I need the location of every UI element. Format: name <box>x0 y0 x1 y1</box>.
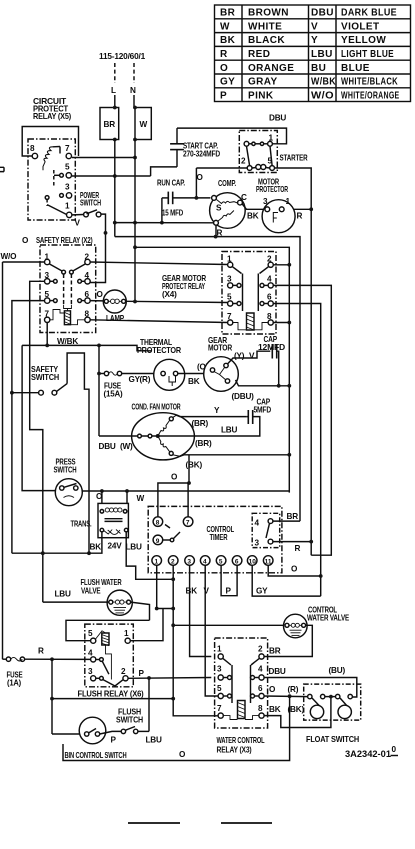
node (W) fan left <box>120 442 133 451</box>
svg-text:6: 6 <box>267 293 272 302</box>
starter pin 2 <box>241 157 252 171</box>
svg-text:BROWN: BROWN <box>248 8 289 19</box>
node DBU (X3 pin4) <box>269 667 286 676</box>
svg-text:P: P <box>226 587 232 596</box>
flush relay contacts <box>96 658 123 686</box>
wire timer aux pin4 to L bus <box>273 520 300 522</box>
starter box <box>239 131 277 173</box>
node LBU (flush switch) <box>146 736 163 745</box>
wire bottom bus down <box>63 696 290 760</box>
flush relay pin 4 <box>88 649 96 663</box>
svg-text:SWITCH: SWITCH <box>80 199 101 208</box>
svg-text:3: 3 <box>88 667 93 676</box>
timer aux pin 3 <box>255 539 273 548</box>
svg-text:2: 2 <box>258 645 263 654</box>
svg-text:W/O: W/O <box>1 252 18 261</box>
timer terminal 7 <box>183 517 193 527</box>
wire LBU to flush valve <box>43 601 109 603</box>
cap 12MFD label <box>258 335 285 352</box>
svg-text:8: 8 <box>258 704 263 713</box>
svg-text:SAFETY RELAY (X2): SAFETY RELAY (X2) <box>36 236 93 245</box>
node O (transformer) <box>96 492 103 501</box>
node (BR) lower <box>195 439 212 448</box>
svg-text:RUN CAP.: RUN CAP. <box>157 179 185 188</box>
drawing number 3A2342-01 <box>345 745 397 759</box>
safety switch <box>39 384 68 396</box>
svg-text:(BR): (BR) <box>195 439 212 448</box>
svg-text:BK: BK <box>220 35 236 46</box>
node Y (fan cap wire) <box>214 406 220 415</box>
junction bus B at safety switch <box>10 391 14 395</box>
run cap label <box>157 179 185 188</box>
svg-text:COMP.: COMP. <box>218 179 236 188</box>
wire transformer BK to bus B <box>12 532 102 553</box>
relay X2 pin 5 <box>45 290 58 303</box>
node (BK) fan <box>186 461 203 470</box>
svg-text:BIN CONTROL SWITCH: BIN CONTROL SWITCH <box>65 751 127 760</box>
starter pin 1 <box>268 134 274 147</box>
flush switch label <box>116 708 143 725</box>
relay X2 pin 1 <box>45 253 50 265</box>
node BK (timer 3) <box>186 587 198 596</box>
wire O branch down to compressor S <box>196 168 210 198</box>
junction fan drop at fuse line <box>97 372 101 376</box>
flush relay pin 3 <box>88 667 96 681</box>
node P (timer 5-6 link) <box>226 587 232 596</box>
press switch <box>55 479 82 506</box>
junction LBU line at timer pin1 <box>155 607 159 611</box>
svg-text:BLACK: BLACK <box>248 35 285 46</box>
bus C press switch feed <box>22 345 55 490</box>
starter pin 5 <box>268 157 275 171</box>
R bus vertical to timer aux <box>310 209 312 555</box>
wire timer 7 up to bracket <box>187 483 189 517</box>
svg-text:LBU: LBU <box>146 736 163 745</box>
wire X5 pin7 to N bus <box>72 157 135 159</box>
junction power switch wire <box>104 231 108 235</box>
node O and (R) (X3 pin6) <box>269 685 299 694</box>
bin control switch <box>79 717 106 744</box>
relay X4 pin 3 <box>227 275 233 289</box>
water control relay X3 box <box>215 638 268 728</box>
fuse 15A <box>99 371 122 375</box>
junction timer pin2 at bottom R line <box>171 697 175 701</box>
svg-text:3: 3 <box>217 665 222 674</box>
capacitor 5MFD <box>248 410 252 424</box>
safety relay X2 box <box>40 245 96 333</box>
wire timer2 bottom line <box>52 698 173 700</box>
wire timer 2 down to X3 pin7 <box>173 565 218 716</box>
cond fan motor <box>132 413 195 460</box>
relay X5 pin 8 <box>30 144 38 159</box>
junction press line at transformer W rise <box>125 489 129 493</box>
wire gear motor V to cap 12MFD <box>228 351 271 364</box>
svg-text:DARK BLUE: DARK BLUE <box>341 8 397 19</box>
svg-text:BR: BR <box>269 647 281 656</box>
timer terminal 6 <box>232 556 242 566</box>
svg-text:ORANGE: ORANGE <box>248 63 294 74</box>
starter top contacts <box>244 141 268 146</box>
svg-text:LBU: LBU <box>126 543 143 552</box>
starter label <box>280 154 308 163</box>
node BK (thermal to gear motor) <box>188 377 200 386</box>
relay X5 coil <box>43 147 60 171</box>
svg-text:5: 5 <box>219 559 223 566</box>
svg-text:4: 4 <box>88 649 93 658</box>
timer internal contact <box>163 525 180 542</box>
relay X2 coil <box>50 310 85 325</box>
motor protector pin labels <box>263 197 291 206</box>
wire start cap bottom to L/pin5 line <box>151 167 177 176</box>
junction timer7 riser at bracket <box>187 481 191 485</box>
svg-text:4: 4 <box>255 519 260 528</box>
relay X2 pin 3 <box>45 271 58 284</box>
svg-text:O: O <box>97 290 104 299</box>
wire fan left terminal to fuse drop <box>99 435 132 437</box>
node BK and (BK) (X3 pin8) <box>269 705 304 714</box>
motor protector label <box>256 178 288 195</box>
svg-text:8: 8 <box>156 520 160 527</box>
gear motor <box>204 357 239 392</box>
wire flush switch riser <box>148 678 150 731</box>
wire W/O to relay X2 pin1 <box>3 261 45 263</box>
wire timer 1 down (LBU) <box>156 565 158 608</box>
svg-text:VIOLET: VIOLET <box>341 21 380 32</box>
timer terminal 8 <box>153 517 163 527</box>
wire L into BR box <box>114 95 116 108</box>
svg-text:LBU: LBU <box>221 426 238 435</box>
relay X3 pin 6 <box>258 684 264 699</box>
control water valve <box>284 614 308 638</box>
wire safety switch down to BK line <box>67 353 89 553</box>
node W/O <box>1 252 18 261</box>
page footer dash 2 <box>221 822 272 824</box>
thermal protector label <box>137 338 181 355</box>
svg-text:24V: 24V <box>108 542 123 551</box>
relay X4 coil <box>233 313 268 330</box>
junction W/BK at fan drop <box>97 344 101 348</box>
node O (timer 11) <box>291 565 298 574</box>
water control relay label <box>217 736 265 755</box>
wire bus B to safety switch <box>12 392 39 394</box>
relay X5 pin 5 <box>54 163 72 179</box>
wire X4 pin6 right and down (O timer bus) <box>273 304 320 597</box>
flush relay label <box>78 690 144 699</box>
svg-text:O: O <box>179 750 186 759</box>
circuit protect relay X5 title <box>33 97 71 121</box>
svg-text:8: 8 <box>30 144 35 153</box>
svg-text:O: O <box>171 473 178 482</box>
relay X3 pin 5 <box>217 684 223 699</box>
wire X5 pin5 to start cap branch <box>72 175 151 177</box>
svg-text:5: 5 <box>227 293 232 302</box>
svg-text:TRANS.: TRANS. <box>71 520 92 529</box>
relay X2 pin 2 <box>85 253 91 265</box>
junction press line at transformer O drop <box>100 489 104 493</box>
wire lamp to N and X4 pin5 <box>126 301 228 302</box>
control timer label <box>207 525 235 542</box>
flush relay pin 5 <box>88 629 96 643</box>
svg-text:N: N <box>130 86 136 95</box>
junction pin5 line at L bus <box>113 174 117 178</box>
compressor COMP <box>210 193 246 229</box>
wire X2 pin5 to bus B <box>12 301 45 554</box>
wire fuse 1A to flush relay pin4 <box>25 658 91 660</box>
svg-text:SWITCH: SWITCH <box>54 466 77 475</box>
relay X2 pin 6 <box>78 290 91 303</box>
wire X2 pin3 down to LBU riser <box>30 281 45 602</box>
svg-text:W: W <box>137 494 145 503</box>
press switch label <box>54 458 77 475</box>
svg-text:V: V <box>75 219 81 228</box>
junction LBU line at timer pin2 <box>171 607 175 611</box>
svg-text:4: 4 <box>203 559 207 566</box>
node O (bottom) <box>179 750 186 759</box>
svg-text:SWITCH: SWITCH <box>116 716 143 725</box>
node R (timer aux) <box>295 544 301 553</box>
relay X3 pin 4 <box>258 665 264 681</box>
svg-text:1: 1 <box>155 559 159 566</box>
svg-text:5: 5 <box>88 629 93 638</box>
node W (transformer) <box>137 494 145 503</box>
cap 5MFD label <box>254 398 272 415</box>
junction valve line at timer pin2 <box>171 623 175 627</box>
svg-text:W/O: W/O <box>311 90 334 101</box>
svg-text:(W): (W) <box>120 442 133 451</box>
timer terminal 10 <box>247 556 257 566</box>
node R (fuse 1A) <box>38 647 44 656</box>
svg-text:RED: RED <box>248 49 270 60</box>
gear motor label <box>208 336 232 353</box>
float switch contacts <box>308 694 353 707</box>
svg-text:WHITE/BLACK: WHITE/BLACK <box>341 77 398 88</box>
flush switch <box>121 727 138 734</box>
svg-text:DBU: DBU <box>269 114 286 123</box>
junction X4 pin8 at O bus <box>287 321 291 325</box>
wire X3 pin4 BU to float switch <box>264 678 357 698</box>
node (O) gear motor input <box>197 363 209 372</box>
fuse 15A label <box>104 382 123 399</box>
junction N bus points <box>133 221 137 250</box>
svg-text:GRAY: GRAY <box>248 77 278 88</box>
wire bin switch to flush switch <box>100 731 122 734</box>
junction R line <box>309 207 313 211</box>
junction safety riser at BK line <box>87 551 91 555</box>
svg-text:BK: BK <box>269 705 281 714</box>
relay X5 pin 3 <box>60 183 72 199</box>
node R (protector output) <box>297 212 303 221</box>
svg-text:3: 3 <box>263 197 268 206</box>
relay X2 contacts and arms <box>49 264 85 311</box>
timer terminal 2 <box>168 556 178 566</box>
junction O line at X4 pin6 bus <box>319 574 323 578</box>
svg-text:4: 4 <box>258 665 263 674</box>
node GY <box>129 375 141 384</box>
connector stub at left edge <box>0 167 4 171</box>
relay X3 pin 8 <box>258 704 264 718</box>
L lead (dashed) <box>114 63 116 83</box>
svg-text:DBU: DBU <box>99 442 116 451</box>
svg-text:RELAY (X3): RELAY (X3) <box>217 746 252 755</box>
svg-text:STARTER: STARTER <box>280 154 308 163</box>
wire gear motor DBU to O bus <box>236 380 290 386</box>
wire timer 4 down to X3 pin5 <box>205 565 218 696</box>
connector BR <box>100 108 119 140</box>
svg-text:(X4): (X4) <box>162 290 177 299</box>
svg-text:R: R <box>295 544 301 553</box>
junction fan BK at O bus <box>287 453 291 457</box>
lamp label <box>106 314 125 323</box>
svg-text:W/BK: W/BK <box>57 337 78 346</box>
flush relay pin 1 <box>124 629 130 643</box>
svg-text:BR: BR <box>104 120 116 129</box>
svg-text:S: S <box>216 204 222 213</box>
wire flush relay pin2 to X3 pin3 <box>128 677 211 680</box>
svg-text:O: O <box>269 685 276 694</box>
svg-text:R: R <box>220 49 228 60</box>
wire LBU link line to flush relay riser <box>157 608 174 610</box>
svg-text:5MFD: 5MFD <box>254 406 272 415</box>
node O (run cap branch) <box>197 173 204 182</box>
node (BU) <box>329 666 346 675</box>
relay X3 pin 7 <box>217 704 223 718</box>
wire start cap top to starter pin 1 (DBU) <box>177 128 287 144</box>
node BK (comp to protector) <box>247 212 259 221</box>
node DBU (fan left) <box>99 442 116 451</box>
svg-text:PINK: PINK <box>248 90 274 101</box>
wire fuse to thermal protector <box>122 373 161 375</box>
L bus vertical <box>114 140 116 237</box>
node V (gear cap) <box>249 352 255 361</box>
wire bin drop down <box>51 659 53 734</box>
svg-text:V: V <box>204 587 210 596</box>
junction R line at bin drop <box>50 657 54 661</box>
wire timer 5-6 jumper <box>221 565 237 595</box>
svg-text:(15A): (15A) <box>104 390 123 399</box>
svg-text:115-120/60/1: 115-120/60/1 <box>99 52 146 61</box>
svg-text:7: 7 <box>65 144 70 153</box>
svg-text:LBU: LBU <box>55 590 72 599</box>
timer aux arm <box>266 523 270 538</box>
junction X4 pin2 at O bus <box>287 263 291 267</box>
capacitor 12MFD <box>272 344 278 386</box>
node N <box>130 86 136 95</box>
wire X2 pin6 to lamp <box>90 300 103 302</box>
junction dots at connector bottoms <box>113 138 137 142</box>
flush relay pin 2 <box>121 667 128 681</box>
wire timer 8 up to fan BK line <box>158 455 189 517</box>
svg-text:BK: BK <box>247 212 259 221</box>
relay X4 pin 1 <box>227 255 233 268</box>
svg-text:PROTECTOR: PROTECTOR <box>256 185 288 194</box>
power switch label <box>80 191 101 208</box>
svg-text:C: C <box>241 193 247 202</box>
node (R) <box>140 375 151 384</box>
svg-text:WATER CONTROL: WATER CONTROL <box>217 736 265 745</box>
float switch floats <box>310 705 351 718</box>
svg-text:R: R <box>297 212 303 221</box>
W/BK line <box>22 345 152 350</box>
compressor label <box>218 179 236 188</box>
relay X3 pin 3 <box>217 665 223 681</box>
svg-text:10: 10 <box>249 559 257 566</box>
timer terminal 4 <box>200 556 210 566</box>
svg-text:3: 3 <box>187 559 191 566</box>
svg-text:(1A): (1A) <box>7 679 21 688</box>
flush relay coil <box>96 631 112 680</box>
fuse 15A drop from W/BK down to fan motor <box>98 345 100 436</box>
gear motor protect relay X4 box <box>222 252 276 335</box>
svg-text:(BK): (BK) <box>288 705 305 714</box>
svg-text:1: 1 <box>124 629 129 638</box>
svg-text:GY: GY <box>220 77 235 88</box>
N bus vertical <box>134 140 136 303</box>
wire X3 pin8 to float switch middle <box>264 697 331 728</box>
svg-text:Y: Y <box>214 406 220 415</box>
svg-text:RELAY (X5): RELAY (X5) <box>33 112 71 121</box>
svg-text:COND. FAN MOTOR: COND. FAN MOTOR <box>132 403 181 412</box>
svg-text:(Y): (Y) <box>234 352 245 361</box>
svg-text:15 MFD: 15 MFD <box>162 209 183 218</box>
relay X4 pin 6 <box>267 293 273 307</box>
junction float middle <box>329 695 333 699</box>
wire flush valve right to flush relay pin5 loop <box>66 602 150 641</box>
svg-text:7: 7 <box>186 520 190 527</box>
junction run cap at O branch <box>160 196 198 225</box>
timer aux pin 4 <box>255 519 273 528</box>
wire color legend table <box>215 5 411 102</box>
svg-text:FLUSH RELAY (X6): FLUSH RELAY (X6) <box>78 690 144 699</box>
relay X5 pin 1 <box>65 202 72 218</box>
node LBU (fan) <box>221 426 238 435</box>
wire X2 pin2 to X4 pin1 <box>90 262 227 265</box>
wire loop pin8 over top to pin7 line <box>22 127 78 157</box>
svg-text:VALVE: VALVE <box>81 587 101 596</box>
svg-text:3: 3 <box>255 539 260 548</box>
connector W <box>135 108 151 140</box>
compressor terminal labels <box>216 193 247 238</box>
wire flush relay pin1 riser to LBU line <box>130 609 163 641</box>
junction R bus at timer aux <box>309 540 313 544</box>
svg-text:WHITE: WHITE <box>248 21 282 32</box>
svg-text:WHITE/ORANGE: WHITE/ORANGE <box>341 90 400 101</box>
junction timer2 at LBU feed line <box>171 577 175 581</box>
float switch box <box>304 684 361 720</box>
svg-text:P: P <box>220 90 227 101</box>
wire timer 3 down to X3 pin1 <box>190 565 212 656</box>
svg-text:DBU: DBU <box>311 8 334 19</box>
svg-text:270-324MFD: 270-324MFD <box>183 150 220 159</box>
float switch label <box>306 735 359 744</box>
svg-text:GY: GY <box>256 587 268 596</box>
svg-text:BU: BU <box>311 63 326 74</box>
wire fan bottom terminal to O bus <box>180 455 289 457</box>
wire fan top terminal to cap 5MFD <box>176 415 246 416</box>
svg-text:(BU): (BU) <box>329 666 346 675</box>
svg-text:BLUE: BLUE <box>341 63 370 74</box>
relay X4 pin 8 <box>267 312 273 325</box>
relay X5 linkage and arm <box>45 170 66 215</box>
svg-text:MOTOR: MOTOR <box>208 344 232 353</box>
thermal protector <box>154 359 185 390</box>
control water valve label <box>307 606 350 623</box>
relay X4 contacts and arms <box>232 267 268 311</box>
svg-text:6: 6 <box>235 559 239 566</box>
wire compressor R down to R line <box>215 225 217 236</box>
relay X3 contacts and arms <box>223 658 259 703</box>
fuse 1A label <box>7 671 24 688</box>
left bus W/O down to fuse 1A <box>2 262 4 659</box>
